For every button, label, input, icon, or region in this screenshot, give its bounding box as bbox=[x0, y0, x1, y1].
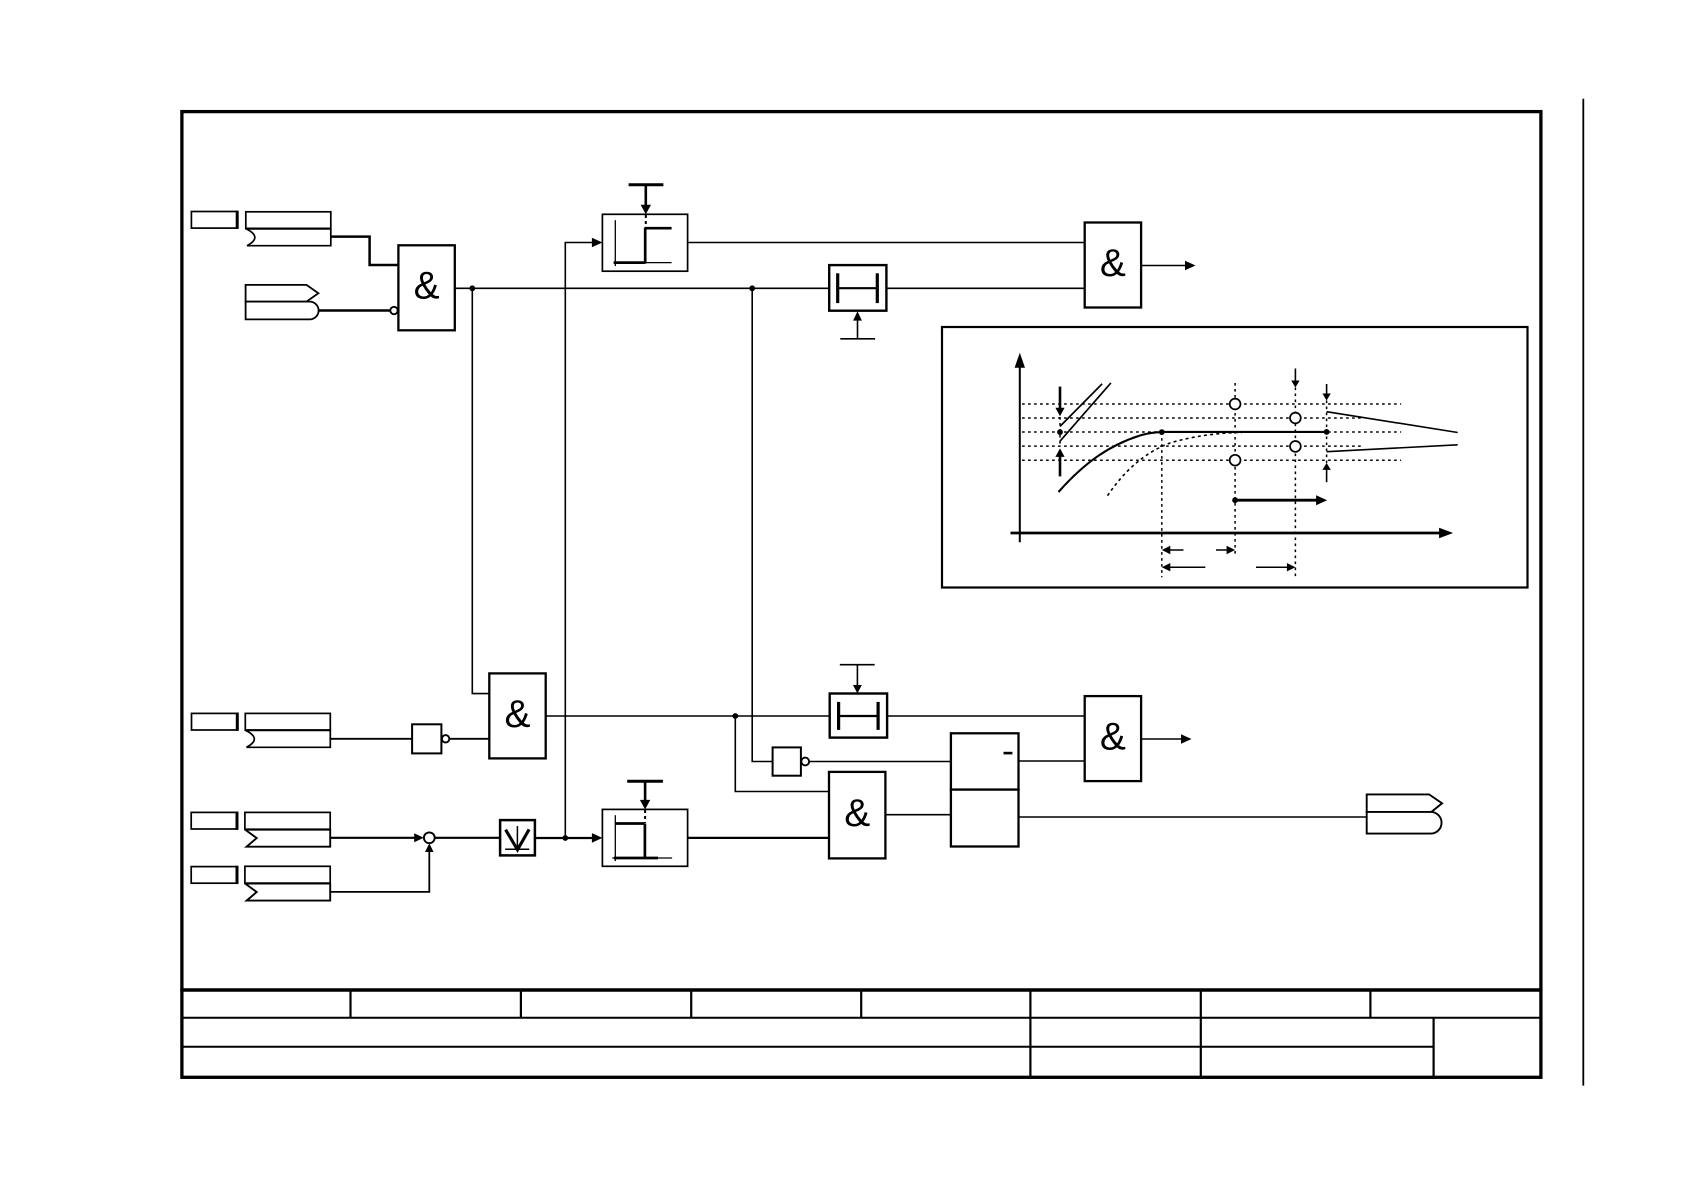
svg-text:&: & bbox=[1100, 716, 1126, 759]
svg-text:&: & bbox=[504, 693, 530, 736]
svg-text:&: & bbox=[844, 792, 870, 835]
svg-text:&: & bbox=[414, 265, 440, 308]
svg-text:&: & bbox=[1100, 242, 1126, 285]
